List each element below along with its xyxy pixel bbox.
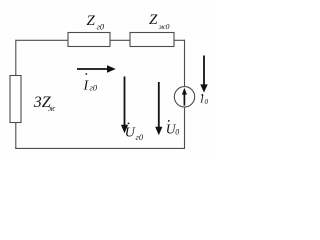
svg-text:0: 0 bbox=[175, 128, 179, 137]
svg-text:ж0: ж0 bbox=[159, 22, 170, 31]
voltage arrow Ug0 bbox=[121, 77, 128, 134]
svg-text:г0: г0 bbox=[97, 22, 105, 32]
resistor Zh0 bbox=[130, 33, 174, 47]
wire left lower bbox=[15, 123, 17, 149]
label Ig0 bbox=[83, 73, 98, 93]
label Ug0 bbox=[125, 123, 144, 142]
wire bottom bbox=[15, 147, 185, 149]
resistor Zg0 bbox=[68, 33, 110, 47]
label Zh0 bbox=[149, 12, 170, 31]
label U0 bbox=[166, 120, 179, 137]
current source I0 bbox=[174, 87, 194, 107]
wire top-left segment bbox=[15, 39, 68, 41]
wire right lower bbox=[184, 107, 186, 149]
label Zg0 bbox=[87, 13, 105, 32]
svg-text:г0: г0 bbox=[90, 83, 98, 93]
wire between Zg0 and Zh0 bbox=[110, 39, 130, 41]
resistor 3Zh bbox=[10, 76, 21, 123]
label I0 bbox=[199, 94, 208, 106]
current arrow Ig0 bbox=[77, 65, 116, 73]
svg-text:г0: г0 bbox=[136, 132, 144, 142]
svg-text:Z: Z bbox=[149, 12, 158, 28]
wire left upper bbox=[15, 40, 17, 76]
label 3Zh bbox=[33, 94, 56, 113]
svg-text:ж: ж bbox=[48, 104, 56, 113]
voltage arrow U0 bbox=[155, 82, 162, 135]
current arrow I0 bbox=[200, 56, 207, 93]
svg-text:U: U bbox=[125, 126, 136, 141]
wire top-right segment bbox=[174, 39, 185, 41]
wire right upper bbox=[184, 40, 186, 87]
svg-text:Z: Z bbox=[87, 13, 96, 29]
svg-text:0: 0 bbox=[205, 98, 209, 106]
